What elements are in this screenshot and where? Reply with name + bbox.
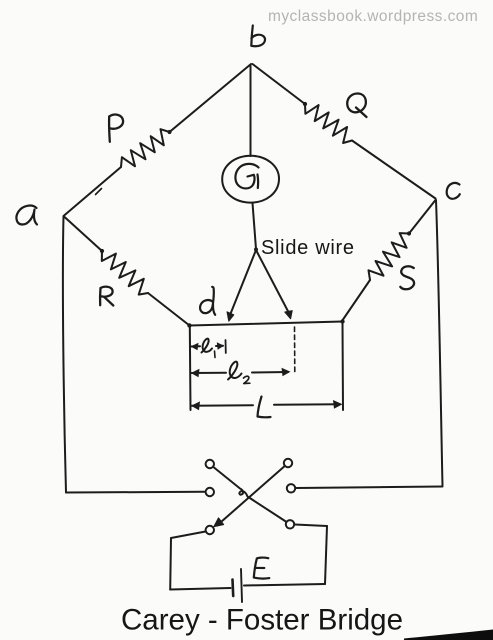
dim l1 left arrow: [191, 345, 200, 347]
left rail a down: [63, 217, 66, 493]
wire S to slide-wire right end: [343, 280, 370, 320]
wire Q to c: [352, 141, 436, 199]
switch blade left-top to right-bottom: [214, 468, 286, 522]
battery box right side: [325, 526, 327, 584]
wire a to R (lower-left arm): [64, 217, 102, 252]
wire battery box to switch right-bottom: [295, 525, 327, 527]
label Q: [347, 94, 366, 118]
battery short plate (negative): [231, 580, 234, 597]
small tick on a-b arm: [96, 189, 102, 195]
wire P to a: [64, 167, 122, 216]
resistor S: [369, 233, 410, 280]
label l2: [228, 362, 242, 380]
switch terminal left-top: [206, 460, 214, 468]
dim l2 left arrow: [192, 372, 227, 374]
black corner mark: [404, 630, 493, 640]
jockey arrow left: [229, 250, 256, 318]
node d junction dot: [187, 323, 191, 327]
wire R to d: [148, 293, 190, 326]
wire galvanometer to slide-wire fork: [253, 203, 257, 249]
battery box bottom-left to plate: [170, 588, 230, 590]
resistor Q: [305, 104, 352, 143]
switch terminal right-top: [284, 459, 292, 467]
node d label: [200, 287, 215, 315]
wire switch left-bottom to battery box: [171, 532, 206, 539]
dimension left vertical: [189, 326, 192, 410]
switch terminal right-middle: [287, 484, 295, 492]
dim l1 right arrow with stop: [216, 345, 223, 347]
battery long plate (positive): [241, 569, 242, 602]
jockey arrow right: [256, 250, 291, 316]
label L: [258, 397, 271, 418]
galvanometer U1 (G): [222, 156, 279, 203]
battery box bottom-right from plate: [244, 584, 325, 586]
resistor P: [121, 129, 170, 167]
node b label: [251, 26, 265, 47]
resistor R: [102, 251, 148, 295]
svg-text:Carey - Foster Bridge: Carey - Foster Bridge: [121, 604, 403, 637]
G letter: [235, 164, 258, 189]
node a label: [16, 206, 37, 225]
dim l2 right line/arrow: [252, 371, 288, 374]
label l1: [202, 339, 213, 353]
dashed balance line: [294, 327, 296, 374]
label E: [254, 558, 269, 579]
switch blade right-top to left-bottom (with arrow): [217, 467, 284, 526]
left rail horizontal to switch: [66, 491, 205, 494]
wire b to P (upper-left arm): [170, 64, 252, 132]
battery box left side: [169, 538, 172, 590]
right slide-wire junction dot: [340, 319, 344, 323]
right rail c down: [436, 200, 443, 486]
label P: [109, 115, 123, 142]
svg-text:Slide wire: Slide wire: [261, 237, 355, 259]
switch terminal right-bottom: [286, 520, 294, 528]
label S: [400, 266, 414, 289]
dimension right vertical: [342, 323, 345, 411]
wire b to Q (upper-right arm): [253, 64, 306, 104]
slide wire (bridge wire d to right end): [190, 322, 343, 326]
node c label: [447, 183, 460, 199]
wire b to galvanometer: [250, 65, 252, 156]
svg-text:myclassbook.wordpress.com: myclassbook.wordpress.com: [268, 8, 478, 25]
wire c to S (lower-right arm): [409, 200, 436, 234]
switch terminal left-middle: [206, 488, 214, 496]
dim L left arrow: [192, 404, 253, 407]
dim L right line/arrow: [274, 403, 340, 406]
right rail horizontal to switch: [297, 487, 443, 489]
switch terminal left-bottom: [206, 526, 214, 534]
label R: [100, 287, 113, 306]
